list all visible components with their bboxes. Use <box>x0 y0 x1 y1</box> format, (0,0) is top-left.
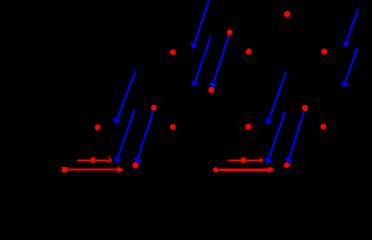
red D18 atom at arrow R4 tail <box>213 167 218 172</box>
red D12 atom <box>320 124 326 130</box>
red displacement arrow R1 (thin, open head) <box>77 157 111 163</box>
red D13 atom <box>132 162 138 168</box>
red displacement arrow R4 (thick, solid head) <box>218 167 274 173</box>
red D8 atom <box>151 105 157 111</box>
red D10 atom <box>245 124 251 130</box>
red D15 atom on arrow R1 <box>90 157 96 163</box>
blue velocity arrow B4 <box>344 9 359 46</box>
blue velocity arrow B8 <box>135 108 154 162</box>
blue velocity arrow B3 <box>211 33 230 87</box>
red D11 atom <box>302 105 308 111</box>
red D5 atom <box>321 49 327 55</box>
red D2 atom <box>227 30 233 36</box>
blue velocity arrow B6 <box>114 72 135 122</box>
blue velocity arrow B5 <box>342 48 357 86</box>
red D17 atom on arrow R3 <box>240 157 246 163</box>
red displacement arrow R3 (thin, solid head) <box>228 158 263 163</box>
red D7 atom <box>95 124 101 130</box>
blue velocity arrow B1 <box>191 0 209 48</box>
red D1 atom <box>170 49 176 55</box>
blue velocity arrow B9 <box>266 72 286 123</box>
red D14 atom <box>284 162 290 168</box>
red D3 atom <box>284 11 290 17</box>
red D9 atom <box>170 124 176 130</box>
blue velocity arrow B7 <box>115 110 135 162</box>
red displacement arrow R2 (thick, solid head, square tail dot D16) <box>62 167 123 173</box>
red D4 atom <box>246 49 252 55</box>
blue velocity arrow B11 <box>286 109 305 162</box>
red D6 atom <box>208 87 214 93</box>
blue velocity arrow B10 <box>266 112 285 163</box>
blue velocity arrow B2 <box>192 37 211 85</box>
